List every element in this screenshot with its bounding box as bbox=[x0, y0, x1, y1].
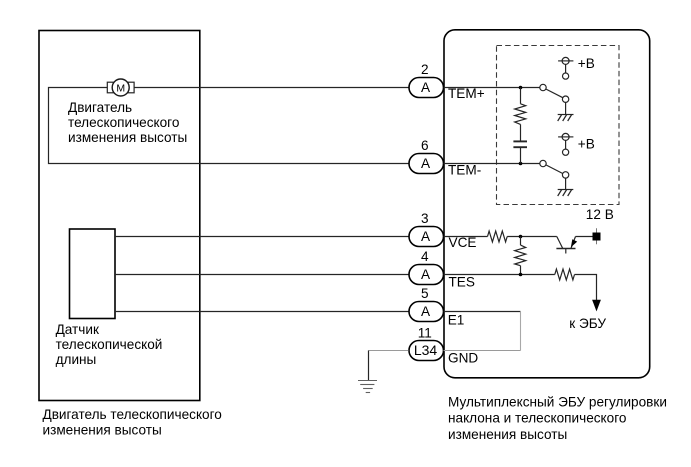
svg-text:TEM-: TEM- bbox=[448, 163, 481, 178]
transistor Q1 (PNP) bbox=[556, 237, 577, 254]
resistor R1 (vertical, TEM+ to cap) bbox=[515, 88, 526, 142]
connector pin 4 bbox=[409, 249, 444, 285]
resistor R3 (vertical VCE-TES) bbox=[515, 237, 526, 275]
arrow to ECU bbox=[592, 300, 601, 312]
relay contact SW1 (TEM+ side) bbox=[540, 73, 569, 102]
ground G2 (chassis) bbox=[558, 178, 574, 196]
svg-text:+B: +B bbox=[578, 136, 595, 151]
capacitor C1 bbox=[513, 141, 527, 163]
+B supply symbol 1 bbox=[558, 57, 573, 73]
connector pin 3 bbox=[409, 211, 444, 247]
wire TEM+ / TEM- motor loop bbox=[49, 88, 409, 164]
connector pin 5 bbox=[409, 286, 444, 322]
svg-text:A: A bbox=[421, 80, 431, 95]
wire TEM+ inside ECU bbox=[444, 87, 541, 89]
wire TEM- inside ECU bbox=[444, 163, 541, 165]
left component box (motor assembly) bbox=[39, 31, 200, 401]
svg-text:A: A bbox=[421, 304, 431, 319]
svg-text:изменения высоты: изменения высоты bbox=[43, 422, 162, 437]
wire L34 ground vertical bbox=[368, 351, 370, 381]
junction dot TEM- bbox=[519, 162, 523, 166]
+B supply symbol 2 bbox=[558, 133, 573, 149]
wire to arrow bbox=[575, 275, 597, 301]
svg-text:телескопической: телескопической bbox=[56, 337, 163, 352]
wire E1-GND loop vertical bbox=[520, 312, 522, 351]
wire GND horizontal inside ECU bbox=[444, 350, 521, 352]
svg-text:VCE: VCE bbox=[449, 235, 477, 250]
connector pin 2 bbox=[409, 62, 444, 98]
connector pin 6 bbox=[409, 138, 444, 174]
svg-text:Мультиплексный ЭБУ регулировки: Мультиплексный ЭБУ регулировки bbox=[448, 395, 667, 410]
svg-text:M: M bbox=[116, 82, 125, 94]
wire E1 sensor to pin 5 bbox=[115, 311, 409, 313]
svg-text:длины: длины bbox=[56, 352, 97, 367]
svg-text:4: 4 bbox=[421, 249, 429, 264]
sensor box (telescopic length sensor) bbox=[70, 229, 116, 319]
ground G3 (earth) bbox=[358, 381, 377, 393]
svg-text:6: 6 bbox=[421, 138, 429, 153]
svg-text:L34: L34 bbox=[414, 342, 438, 358]
svg-text:телескопического: телескопического bbox=[68, 115, 179, 130]
dashed internal block bbox=[497, 46, 620, 205]
svg-text:+B: +B bbox=[578, 56, 595, 71]
wire VCE sensor to pin 3 bbox=[115, 236, 409, 238]
motor M1 bbox=[107, 79, 134, 96]
junction dot TES bbox=[519, 273, 523, 277]
svg-text:GND: GND bbox=[448, 351, 478, 366]
wire VCE inside ECU bbox=[444, 236, 488, 238]
svg-text:3: 3 bbox=[421, 211, 429, 226]
ground G1 (chassis) bbox=[558, 102, 574, 121]
svg-text:Двигатель: Двигатель bbox=[68, 100, 132, 115]
svg-text:к ЭБУ: к ЭБУ bbox=[569, 316, 606, 331]
svg-text:наклона и телескопического: наклона и телескопического bbox=[448, 411, 626, 426]
resistor R2 (horizontal on VCE) bbox=[488, 231, 508, 242]
wire L34 to ground horizontal bbox=[369, 350, 409, 352]
relay contact SW2 (TEM- side) bbox=[540, 149, 569, 178]
wire to transistor bbox=[507, 236, 557, 238]
svg-text:2: 2 bbox=[421, 62, 429, 77]
svg-text:TES: TES bbox=[449, 275, 475, 290]
svg-text:изменения высоты: изменения высоты bbox=[448, 427, 567, 442]
svg-text:E1: E1 bbox=[448, 312, 465, 327]
svg-text:A: A bbox=[421, 156, 431, 171]
svg-text:A: A bbox=[421, 229, 431, 244]
svg-text:12 В: 12 В bbox=[586, 207, 614, 222]
svg-text:Датчик: Датчик bbox=[56, 322, 100, 337]
svg-text:изменения высоты: изменения высоты bbox=[68, 130, 187, 145]
svg-text:11: 11 bbox=[418, 326, 432, 341]
svg-text:Двигатель телескопического: Двигатель телескопического bbox=[43, 407, 222, 422]
svg-text:5: 5 bbox=[421, 286, 429, 301]
wire TES sensor to pin 4 bbox=[115, 274, 409, 276]
svg-text:TEM+: TEM+ bbox=[448, 86, 485, 101]
wire E1 inside ECU bbox=[444, 311, 521, 313]
12V supply square bbox=[593, 228, 601, 244]
wire transistor to 12V bbox=[576, 236, 593, 238]
wire TES inside ECU bbox=[444, 274, 555, 276]
ECU box (rounded) bbox=[444, 30, 650, 378]
connector pin 11 (L34) bbox=[409, 326, 444, 361]
junction dot TEM+ bbox=[519, 86, 523, 90]
junction dot VCE bbox=[519, 235, 523, 239]
resistor R4 (horizontal on TES) bbox=[555, 269, 575, 280]
svg-text:A: A bbox=[421, 267, 431, 282]
